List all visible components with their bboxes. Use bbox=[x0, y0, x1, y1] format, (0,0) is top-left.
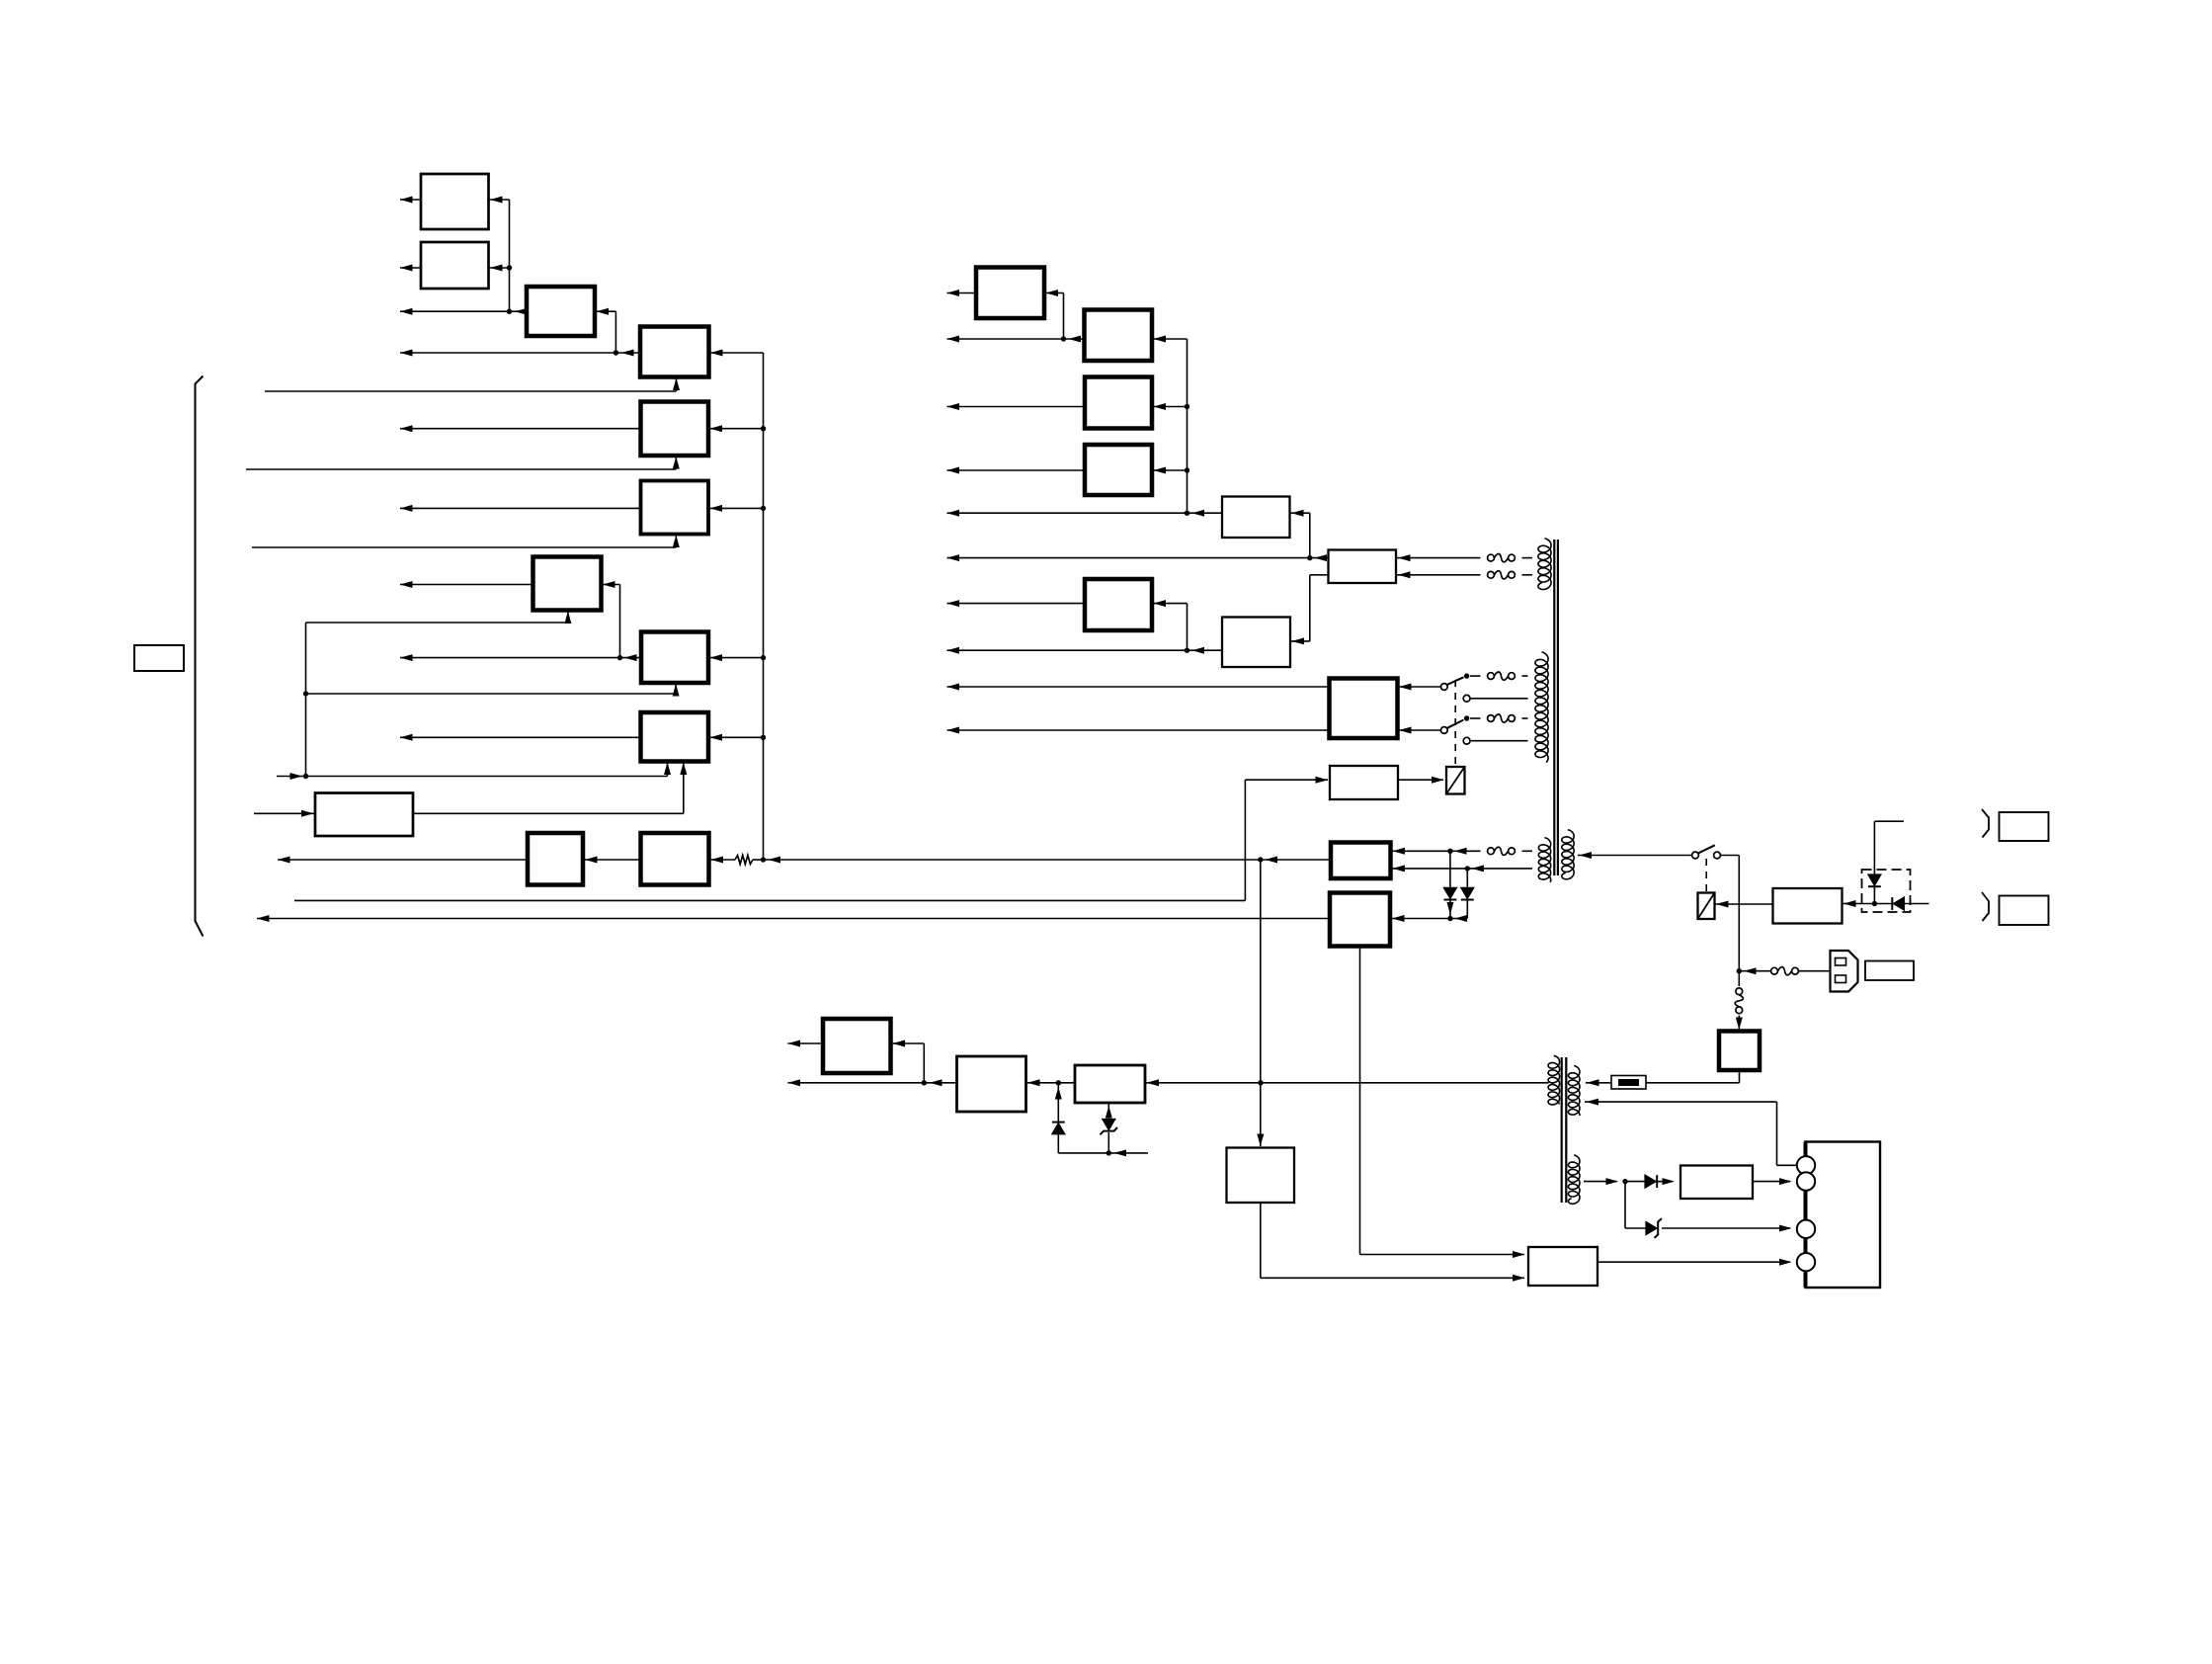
box Q bbox=[1222, 497, 1290, 539]
node: AC junction bbox=[1737, 968, 1742, 973]
node: bus-I bbox=[761, 735, 766, 740]
wire: box C input bbox=[595, 310, 615, 312]
box F bbox=[641, 481, 709, 535]
wire: middle bus upper bbox=[1187, 339, 1188, 513]
node: Z-AA junction bbox=[1056, 1080, 1061, 1085]
wire: box DD to relay RY2 bbox=[1715, 903, 1773, 905]
connector box 1 bbox=[2000, 812, 2049, 841]
wire: right vertical bus bbox=[763, 353, 765, 860]
wire: primary to power switch bbox=[1578, 855, 1692, 857]
connector bracket 1 bbox=[1982, 809, 1989, 838]
wire: box J input bbox=[254, 812, 315, 814]
box A bbox=[421, 174, 489, 229]
wire: T2 lower tap to connector circle 1 bbox=[1585, 1101, 1777, 1103]
node: G-H junction bbox=[617, 655, 622, 660]
box S bbox=[1085, 579, 1152, 630]
node: bus-Q bbox=[1185, 511, 1189, 516]
wire: box I input bbox=[708, 736, 764, 738]
node: V in2 bbox=[1465, 866, 1470, 871]
box Y bbox=[823, 1019, 891, 1073]
relay RY1 bbox=[1446, 767, 1465, 794]
node: bus bottom bbox=[761, 857, 766, 862]
node: DD junction bbox=[1872, 901, 1877, 906]
T1 winding W1 (top secondary) bbox=[1538, 539, 1551, 590]
diode D2 bbox=[1466, 869, 1468, 888]
wire: box EE to filter bbox=[1739, 1070, 1741, 1083]
connector bracket 2 bbox=[1982, 892, 1989, 921]
wire: row from box Z bbox=[788, 1082, 957, 1084]
wire: box N input from bus bbox=[1152, 338, 1188, 340]
box BB bbox=[1227, 1148, 1295, 1204]
node: fb-I bbox=[303, 774, 308, 779]
wire: box U output row 2 bbox=[947, 729, 1330, 731]
wire: box S output bbox=[947, 603, 1086, 605]
wire: box K input from box L bbox=[583, 859, 641, 861]
wire: box Y input bbox=[891, 1042, 925, 1044]
box R bbox=[1329, 550, 1397, 584]
wire: box Q output row bbox=[947, 512, 1223, 514]
fuse F2 bbox=[1488, 673, 1495, 680]
node: D5 junction bbox=[1622, 1179, 1627, 1184]
relay RY1 diagonal bbox=[1446, 767, 1465, 794]
wire: feedback into box D bbox=[265, 390, 677, 392]
tap 2 circle bbox=[1463, 695, 1470, 702]
wire: box R input 2 with fuse bbox=[1396, 574, 1481, 576]
wire: box A output bbox=[400, 199, 421, 201]
box C bbox=[527, 287, 595, 336]
wire: box M input bbox=[1044, 292, 1064, 294]
wire: box E output bbox=[400, 428, 641, 430]
wire: box V input 1 bbox=[1391, 850, 1450, 852]
connector bracket (left big parenthesis) bbox=[196, 376, 204, 937]
diode D7 (vertical) bbox=[1873, 821, 1875, 875]
diode D5 bbox=[1645, 1175, 1656, 1188]
connector box 2 bbox=[2000, 896, 2049, 926]
wire: box P input bbox=[1152, 469, 1188, 471]
wire: fuse to AC plug bbox=[1739, 970, 1770, 972]
box W bbox=[1330, 893, 1390, 947]
box M bbox=[976, 268, 1044, 319]
wire: R second output down to box T bbox=[1310, 574, 1329, 576]
wire: box H output row bbox=[400, 657, 641, 659]
wire: long supply line from box V bbox=[764, 859, 1332, 861]
box I bbox=[641, 712, 709, 762]
wire: box X output to relay bbox=[1398, 779, 1443, 781]
wire: feedback into box G bbox=[306, 622, 568, 624]
wire: box U input 1 from switch bbox=[1398, 686, 1441, 688]
dashed gang link to relay RY1 bbox=[1454, 680, 1456, 765]
node: Q-R junction bbox=[1307, 555, 1312, 560]
node: branch to bottom section bbox=[1258, 857, 1263, 862]
small box (left label) bbox=[134, 645, 184, 671]
box P bbox=[1085, 445, 1152, 495]
wire: left feedback vertical bbox=[305, 623, 307, 777]
wire: box DD input bbox=[1843, 903, 1875, 905]
wire: box K output bbox=[278, 859, 528, 861]
relay RY2 bbox=[1698, 893, 1715, 920]
node: M-N junction bbox=[1061, 336, 1066, 341]
wire: box R input 1 with fuse bbox=[1396, 557, 1481, 559]
resistor R (series) bbox=[735, 856, 753, 865]
box E bbox=[641, 402, 709, 457]
box Z bbox=[957, 1056, 1026, 1112]
box X (relay driver) bbox=[1330, 766, 1398, 799]
wire: AC feed vertical bbox=[1738, 856, 1740, 971]
transformer T2 core bbox=[1561, 1057, 1563, 1203]
wire: box F input bbox=[708, 507, 764, 509]
wire: box U output row 1 bbox=[947, 686, 1330, 688]
node: bus-H bbox=[761, 655, 766, 660]
vertical fuse F5 bbox=[1738, 971, 1740, 986]
box K bbox=[528, 833, 583, 885]
node: tap 1 bbox=[1464, 673, 1469, 678]
dashed link switch to relay RY2 bbox=[1705, 859, 1707, 891]
wire: box CC output to connector circle 2 bbox=[1753, 1181, 1790, 1183]
tap 4 circle bbox=[1463, 737, 1470, 744]
connector block (4-pin) bbox=[1806, 1142, 1881, 1289]
box DD bbox=[1773, 888, 1843, 924]
wire: box A input from vertical bbox=[489, 199, 510, 201]
T1 winding W3 (aux secondary) bbox=[1538, 838, 1550, 882]
pin 3 bbox=[1797, 1220, 1815, 1238]
wire: stub right bbox=[1108, 1152, 1148, 1154]
box CC bbox=[1680, 1166, 1753, 1200]
node: AA-BB junction bbox=[1258, 1080, 1263, 1085]
wire: box T output row bbox=[947, 649, 1223, 651]
AC plug bbox=[1831, 951, 1858, 992]
box V bbox=[1331, 843, 1391, 879]
switch S2b bbox=[1440, 727, 1447, 734]
wire: box S input bbox=[1152, 603, 1188, 605]
relay RY2 diagonal bbox=[1698, 893, 1715, 920]
box J bbox=[315, 793, 413, 837]
fuse F1 bbox=[1771, 967, 1778, 974]
switch S2a bbox=[1440, 684, 1447, 691]
wire: box AA input bbox=[1145, 1082, 1261, 1084]
diode D1 bbox=[1449, 851, 1451, 887]
box U bbox=[1330, 679, 1398, 739]
wire: box F output bbox=[400, 507, 641, 509]
wire: branch down to box BB bbox=[1260, 860, 1262, 1146]
fuse F3 bbox=[1488, 715, 1495, 722]
transformer T1 core bbox=[1553, 540, 1555, 875]
T2 winding right bottom bbox=[1568, 1155, 1580, 1204]
wire: box B output bbox=[400, 267, 421, 269]
wire: box D input from bus bbox=[709, 352, 764, 354]
wire: feedback into box I bbox=[277, 776, 668, 778]
wire: row to relay driver (box X) bbox=[294, 899, 1245, 901]
wire: box W output long row bbox=[257, 918, 1330, 920]
wire: box J output to box I bbox=[413, 812, 684, 814]
wire: box Z input bbox=[1026, 1082, 1059, 1084]
zener D4 below box AA bbox=[1107, 1103, 1109, 1121]
wire: long line to T2 winding bbox=[1261, 1082, 1549, 1084]
node: bus-O bbox=[1185, 404, 1189, 409]
box N bbox=[1085, 310, 1153, 362]
box AA bbox=[1075, 1065, 1145, 1103]
node: fb-H bbox=[303, 691, 308, 696]
box T bbox=[1222, 618, 1290, 668]
wire: box GG output to connector bbox=[1598, 1261, 1790, 1263]
wire: vertical feed A/B/C bbox=[509, 200, 511, 311]
wire: box W input bbox=[1390, 918, 1450, 920]
wire: box M output bbox=[947, 292, 977, 294]
box H bbox=[641, 632, 708, 684]
wire: box W bottom to box GG bbox=[1359, 947, 1361, 1255]
wire: box B input bbox=[489, 267, 510, 269]
zener D6 branch to connector circle 3 bbox=[1624, 1182, 1626, 1228]
wire: feedback into box F bbox=[252, 546, 676, 548]
node: C row bbox=[507, 309, 512, 314]
box EE (degauss) bbox=[1719, 1032, 1760, 1071]
plug label box bbox=[1865, 961, 1914, 981]
node: bus-E bbox=[761, 426, 766, 431]
wire: box H input bbox=[708, 657, 764, 659]
T1 winding W2 (switched secondary) bbox=[1535, 652, 1548, 763]
wire: box O input bbox=[1152, 406, 1188, 408]
node: W input junction bbox=[1447, 916, 1452, 921]
wire: row D output long bbox=[400, 352, 640, 354]
node: S-T junction bbox=[1185, 648, 1189, 653]
wire: box G input from H row bbox=[602, 584, 620, 586]
node: Y-Z junction bbox=[922, 1080, 927, 1085]
wire: box G output bbox=[400, 584, 533, 586]
diode D3 branch bbox=[1055, 1087, 1062, 1100]
box L bbox=[641, 833, 709, 885]
T2 winding right top bbox=[1568, 1066, 1580, 1117]
fuse F4 bbox=[1488, 848, 1495, 855]
box D bbox=[640, 327, 709, 377]
node: V in1 bbox=[1447, 849, 1452, 854]
box G bbox=[533, 557, 602, 611]
wire: box Q input bbox=[1290, 512, 1310, 514]
wire: box Y output bbox=[788, 1042, 824, 1044]
wire: box R output row bbox=[947, 557, 1329, 559]
filter component (black bar) bbox=[1611, 1076, 1646, 1090]
node: bus-F bbox=[761, 506, 766, 511]
wire: box E input bbox=[708, 428, 764, 430]
wire: box P output bbox=[947, 469, 1086, 471]
wire: feedback into box E bbox=[246, 468, 676, 470]
pin 4 bbox=[1797, 1253, 1815, 1271]
wire: stub above bbox=[1874, 820, 1904, 822]
box GG bbox=[1528, 1247, 1598, 1286]
wire: box BB to box GG bbox=[1260, 1203, 1262, 1278]
power switch S1 bbox=[1692, 852, 1699, 859]
T1 primary winding bbox=[1562, 830, 1574, 879]
T2 winding left (feedback) bbox=[1548, 1055, 1560, 1105]
node: B feed bbox=[507, 265, 512, 270]
dash-dot protection box bbox=[1862, 870, 1911, 912]
pin 1 bbox=[1797, 1156, 1815, 1174]
box B bbox=[421, 242, 489, 289]
pin 2 bbox=[1797, 1172, 1815, 1190]
diode D8 (left) bbox=[1874, 903, 1892, 905]
wire: feedback into box H bbox=[306, 693, 677, 695]
wire: box N output row bbox=[947, 338, 1085, 340]
wire: box L input bbox=[709, 859, 736, 861]
node: D3-D4 junction bbox=[1106, 1150, 1111, 1155]
wire: box V input 2 bbox=[1391, 868, 1468, 870]
wire: box O output bbox=[947, 406, 1086, 408]
wire: row C output long bbox=[400, 310, 527, 312]
node: C-D junction bbox=[614, 350, 618, 355]
wire: box U input 2 from switch bbox=[1398, 729, 1441, 731]
wire: T2 bottom winding to diode D5 bbox=[1584, 1181, 1617, 1183]
node: tap 3 bbox=[1464, 715, 1469, 720]
wire: box I output bbox=[400, 736, 641, 738]
box O bbox=[1085, 377, 1152, 429]
node: bus-P bbox=[1185, 467, 1189, 472]
